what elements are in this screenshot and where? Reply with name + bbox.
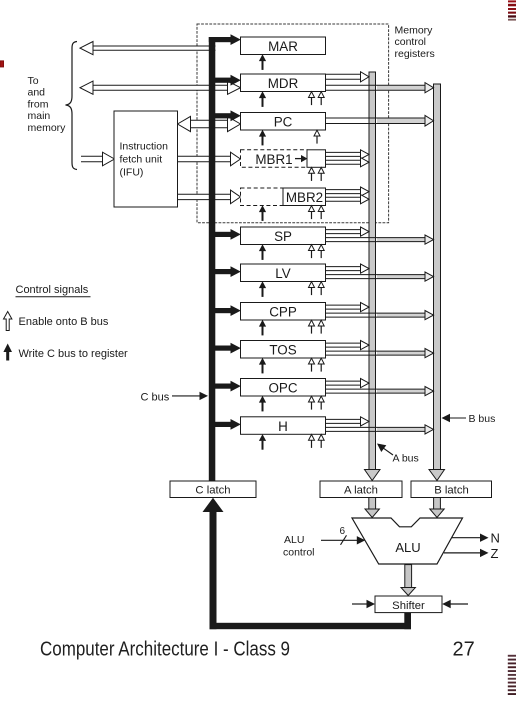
svg-text:registers: registers xyxy=(395,48,435,60)
svg-text:CPP: CPP xyxy=(269,305,297,320)
svg-text:SP: SP xyxy=(274,229,292,244)
svg-text:ALU: ALU xyxy=(395,540,420,555)
svg-text:B bus: B bus xyxy=(469,413,496,425)
svg-text:B latch: B latch xyxy=(434,485,469,497)
svg-text:Computer Architecture I - Clas: Computer Architecture I - Class 9 xyxy=(40,638,290,660)
svg-text:Control signals: Control signals xyxy=(16,284,89,296)
svg-text:N: N xyxy=(491,531,500,546)
svg-text:TOS: TOS xyxy=(269,343,296,358)
svg-text:main: main xyxy=(28,110,51,122)
svg-text:memory: memory xyxy=(28,122,67,134)
svg-text:Write C bus to register: Write C bus to register xyxy=(19,348,129,360)
svg-text:A latch: A latch xyxy=(344,485,378,497)
svg-text:To: To xyxy=(28,75,39,87)
svg-text:and: and xyxy=(28,87,46,99)
svg-text:C bus: C bus xyxy=(141,391,170,403)
svg-text:PC: PC xyxy=(274,115,293,130)
svg-text:MBR2: MBR2 xyxy=(286,190,323,205)
svg-text:MAR: MAR xyxy=(268,39,298,54)
svg-text:Enable onto B bus: Enable onto B bus xyxy=(19,316,109,328)
svg-text:(IFU): (IFU) xyxy=(120,167,144,179)
svg-text:27: 27 xyxy=(453,638,475,660)
svg-text:OPC: OPC xyxy=(268,381,297,396)
svg-text:ALU: ALU xyxy=(284,534,304,546)
svg-text:LV: LV xyxy=(275,266,290,281)
svg-text:MBR1: MBR1 xyxy=(255,152,292,167)
svg-text:A bus: A bus xyxy=(393,453,419,465)
svg-text:Memory: Memory xyxy=(395,25,434,37)
svg-text:Z: Z xyxy=(491,546,499,561)
svg-text:MDR: MDR xyxy=(268,76,299,91)
svg-text:control: control xyxy=(283,547,315,559)
svg-text:Shifter: Shifter xyxy=(392,600,425,612)
svg-text:fetch unit: fetch unit xyxy=(120,154,163,166)
svg-text:H: H xyxy=(278,419,288,434)
svg-text:6: 6 xyxy=(340,526,346,537)
svg-text:from: from xyxy=(28,98,49,110)
svg-text:control: control xyxy=(395,36,427,48)
svg-text:Instruction: Instruction xyxy=(120,141,169,153)
svg-text:C latch: C latch xyxy=(195,485,230,497)
